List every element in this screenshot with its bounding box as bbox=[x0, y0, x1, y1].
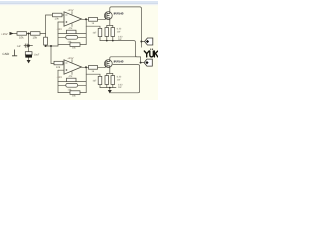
+15V source arrow bbox=[1, 32, 14, 36]
svg-text:0.22: 0.22 bbox=[118, 35, 123, 38]
resistor R7b gate bbox=[89, 66, 98, 74]
svg-text:10k: 10k bbox=[19, 36, 24, 40]
wire bbox=[82, 66, 89, 68]
wire bbox=[106, 84, 108, 87]
svg-text:IRF540: IRF540 bbox=[114, 12, 124, 16]
svg-text:0.22: 0.22 bbox=[117, 28, 122, 31]
capacitor C1 electrolytic bbox=[17, 45, 40, 57]
wire bbox=[109, 20, 111, 25]
wire bbox=[58, 81, 67, 83]
svg-text:10k: 10k bbox=[55, 17, 60, 20]
wire bbox=[24, 45, 33, 47]
wire bbox=[140, 42, 142, 48]
wire bbox=[28, 58, 30, 60]
ground arrow bottom channel bbox=[108, 90, 112, 93]
wire bbox=[58, 69, 64, 71]
wire bbox=[85, 67, 87, 92]
ground GND symbol bbox=[2, 50, 17, 57]
resistor R6 feedback bottom bbox=[70, 43, 80, 50]
wire bbox=[58, 92, 70, 94]
wire bbox=[141, 41, 144, 43]
wire bbox=[45, 34, 47, 38]
svg-text:0.22: 0.22 bbox=[118, 83, 123, 86]
wire bbox=[58, 21, 64, 23]
op-amp U1 bbox=[57, 9, 82, 31]
wire bbox=[110, 7, 142, 42]
wire bbox=[100, 87, 116, 89]
resistor RG2 bbox=[93, 76, 102, 84]
wire bbox=[109, 88, 111, 90]
wire bbox=[107, 24, 113, 26]
resistor RS1b source bbox=[105, 76, 109, 85]
resistor R7 gate bbox=[89, 18, 98, 26]
wire bbox=[82, 18, 89, 20]
resistor RS2b source bbox=[111, 76, 123, 89]
wire bbox=[80, 92, 86, 94]
wire bbox=[57, 70, 59, 92]
wire bbox=[111, 65, 140, 93]
wire bbox=[106, 73, 108, 75]
wire bbox=[86, 26, 100, 28]
wire bbox=[98, 18, 105, 20]
wire bbox=[141, 57, 145, 63]
wire bbox=[14, 33, 18, 35]
wire bbox=[99, 85, 101, 88]
wire bbox=[100, 41, 141, 57]
svg-text:-15V: -15V bbox=[57, 28, 63, 31]
resistor R5b feedback top bbox=[67, 75, 77, 82]
wire bbox=[63, 62, 64, 64]
svg-text:10k: 10k bbox=[56, 66, 61, 69]
wire bbox=[112, 36, 114, 40]
resistor R1 bbox=[17, 32, 27, 40]
wire bbox=[112, 25, 114, 27]
potentiometer P2 bbox=[58, 83, 86, 91]
resistor R3 bbox=[53, 13, 63, 20]
svg-text:-15V: -15V bbox=[57, 76, 63, 79]
svg-text:+15V: +15V bbox=[1, 32, 8, 36]
resistor R5 feedback top bbox=[67, 27, 77, 34]
resistor RS1 source bbox=[105, 28, 109, 37]
wire bbox=[45, 45, 47, 46]
top blue band bbox=[0, 0, 158, 1]
wire bbox=[99, 37, 101, 41]
wire bbox=[76, 81, 86, 83]
wire bbox=[112, 84, 114, 87]
node junction dots bbox=[27, 18, 142, 88]
background bbox=[0, 0, 158, 100]
wire bbox=[98, 66, 105, 68]
transistor Q1 MOSFET bbox=[104, 11, 124, 20]
wire bbox=[28, 34, 30, 45]
wire bbox=[106, 36, 108, 40]
svg-text:0.22: 0.22 bbox=[117, 76, 122, 79]
wire bbox=[76, 33, 86, 35]
wire bbox=[86, 74, 100, 76]
wire bbox=[112, 73, 114, 75]
transistor Q2 MOSFET bbox=[104, 59, 124, 68]
svg-text:10k: 10k bbox=[33, 36, 38, 40]
potentiometer P1 bbox=[58, 35, 86, 43]
ground arrow below C1 bbox=[27, 60, 31, 63]
port OUT2 bbox=[144, 59, 152, 66]
svg-text:IRF540: IRF540 bbox=[114, 60, 124, 64]
resistor R6b feedback bottom bbox=[70, 91, 80, 98]
svg-text:1uF: 1uF bbox=[17, 45, 22, 48]
resistor R2 bbox=[31, 32, 41, 40]
resistor RS2 source bbox=[111, 28, 123, 41]
wire bbox=[110, 57, 141, 59]
wire bbox=[107, 72, 113, 74]
wire bbox=[80, 44, 86, 46]
wire bbox=[106, 25, 108, 27]
wire bbox=[28, 46, 30, 52]
svg-text:GND: GND bbox=[2, 52, 10, 56]
wire bbox=[62, 14, 64, 16]
port OUT1 bbox=[145, 38, 153, 45]
resistor R3b input bottom bbox=[54, 61, 63, 69]
svg-text:+15V: +15V bbox=[67, 9, 73, 12]
resistor RG1 bbox=[93, 28, 102, 36]
wire bbox=[40, 33, 46, 35]
wire bbox=[46, 45, 59, 47]
wire bbox=[109, 68, 111, 73]
wire bbox=[51, 46, 54, 64]
label YUK bbox=[144, 49, 158, 57]
capacitor plates bbox=[25, 44, 27, 48]
svg-text:+15V: +15V bbox=[67, 57, 73, 60]
wire bbox=[46, 15, 53, 34]
resistor R4 vertical bbox=[44, 37, 48, 45]
wire bbox=[57, 22, 59, 46]
op-amp U2 bbox=[57, 57, 82, 79]
wire bbox=[27, 33, 31, 35]
wire bbox=[58, 33, 67, 35]
svg-text:10uF: 10uF bbox=[34, 53, 40, 56]
wire bbox=[85, 19, 87, 44]
wire bbox=[58, 44, 70, 46]
